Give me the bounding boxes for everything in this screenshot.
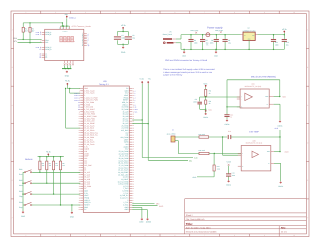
svg-text:+3.3v: +3.3v <box>139 78 144 81</box>
svg-text:EXT AMP: EXT AMP <box>249 130 259 133</box>
svg-text:L3: L3 <box>45 56 47 59</box>
svg-text:AGND: AGND <box>146 220 152 223</box>
svg-text:COM_D: COM_D <box>45 48 52 51</box>
svg-text:+3.3v: +3.3v <box>121 24 126 27</box>
svg-text:SW2: SW2 <box>19 179 23 182</box>
svg-text:+5v: +5v <box>148 78 151 81</box>
svg-text:GND and GNDA connected on Teen: GND and GNDA connected on Teensy v3 RevB <box>165 59 208 62</box>
svg-text:SCL: SCL <box>45 41 48 44</box>
svg-text:Teensy 3.1: Teensy 3.1 <box>99 83 110 86</box>
svg-text:4k7: 4k7 <box>32 29 35 32</box>
svg-text:Buttons: Buttons <box>25 158 33 161</box>
svg-text:GND: GND <box>121 51 126 54</box>
svg-text:+3.3v: +3.3v <box>46 151 51 154</box>
svg-text:This is a non-isolated 3v3 sup: This is a non-isolated 3v3 supply: when … <box>163 68 214 71</box>
svg-text:SCL: SCL <box>13 40 17 43</box>
svg-text:MIC: MIC <box>156 202 160 205</box>
svg-text:AUD: AUD <box>285 151 290 154</box>
svg-text:Sheet: /: Sheet: / <box>186 214 194 217</box>
svg-text:Play: Play <box>19 195 22 198</box>
svg-text:Rev:: Rev: <box>281 226 286 229</box>
svg-text:PWR_FLAG: PWR_FLAG <box>191 30 199 32</box>
svg-text:+1V65: +1V65 <box>226 161 231 164</box>
svg-text:Size: A4 Date: 21 giu 2: Size: A4 Date: 21 giu 2014 <box>186 226 211 229</box>
svg-text:GNDA: GNDA <box>225 123 231 126</box>
svg-text:+: + <box>241 97 242 99</box>
svg-text:GND: GND <box>65 75 70 78</box>
svg-text:Stop: Stop <box>19 206 23 209</box>
svg-text:SW4: SW4 <box>19 201 23 204</box>
svg-text:AFF1 Common_Anode: AFF1 Common_Anode <box>72 25 91 28</box>
svg-text:Barrel_Jack: Barrel_Jack <box>163 33 172 36</box>
svg-text:GNDA: GNDA <box>203 116 209 119</box>
svg-text:Id: 1/1: Id: 1/1 <box>281 231 288 234</box>
svg-text:GND: GND <box>21 215 26 218</box>
svg-text:KiCad E.D.A. kicad (4.0.2-sta: KiCad E.D.A. kicad (4.0.2-stable) <box>186 231 217 234</box>
svg-text:c c c c: c c c c <box>63 31 68 33</box>
svg-text:COM_B: COM_B <box>45 33 52 36</box>
svg-text:GNDA: GNDA <box>278 185 284 188</box>
svg-text:MIC (ELECTRET/MEMS): MIC (ELECTRET/MEMS) <box>251 75 276 78</box>
svg-text:SW1: SW1 <box>19 168 23 171</box>
svg-text:Power supply: Power supply <box>207 27 223 30</box>
svg-text:AUD: AUD <box>159 205 164 208</box>
svg-text:File: TeensyMidi.sch: File: TeensyMidi.sch <box>186 218 206 221</box>
svg-text:GNDA: GNDA <box>226 184 232 187</box>
svg-text:PWR_FLAG: PWR_FLAG <box>215 30 223 32</box>
svg-text:+: + <box>242 153 243 155</box>
svg-text:COM_A: COM_A <box>69 16 76 19</box>
svg-text:Prev: Prev <box>19 173 23 176</box>
svg-text:it takes messenger boards just: it takes messenger boards just over 3V3 … <box>163 71 212 74</box>
svg-text:GND: GND <box>70 216 75 219</box>
svg-text:GND: GND <box>248 39 251 41</box>
svg-text:jumper at first Teensy: jumper at first Teensy <box>162 74 182 77</box>
svg-text:+3.3v: +3.3v <box>65 80 70 83</box>
svg-text:Title:: Title: <box>186 222 193 226</box>
svg-text:GND: GND <box>139 220 144 223</box>
svg-text:GNDA: GNDA <box>278 124 284 127</box>
svg-text:+3.3v: +3.3v <box>282 28 287 31</box>
svg-text:SW3: SW3 <box>19 190 23 193</box>
svg-text:Next: Next <box>19 184 23 187</box>
svg-text:4k7: 4k7 <box>25 29 28 32</box>
